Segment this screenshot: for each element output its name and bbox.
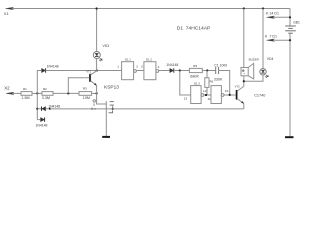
- svg-text:1: 1: [117, 65, 119, 69]
- wire down from X2 node to diode pair: [36, 93, 38, 119]
- capacitor C2 plates: [110, 102, 114, 110]
- svg-text:4: 4: [158, 65, 160, 69]
- capacitor C2 mark: [93, 103, 95, 106]
- svg-text:3.3M: 3.3M: [42, 96, 50, 100]
- node collector VT2: [243, 80, 245, 82]
- wire diode pair bottom branch: [37, 119, 40, 121]
- wire VT2 emitter to bottom rail: [243, 104, 245, 109]
- node junction base branch: [67, 92, 69, 94]
- svg-text:+: +: [242, 69, 244, 73]
- logic gate D1.4: [211, 86, 224, 104]
- node diode pair right: [49, 108, 51, 110]
- wire diode pair top branch: [37, 108, 41, 110]
- battery GB1: [285, 26, 296, 33]
- node pin 10: [229, 94, 231, 96]
- wire buzzer branch: [243, 9, 245, 68]
- svg-text:BUZER: BUZER: [249, 57, 260, 61]
- wire VT2 collector up: [243, 76, 245, 87]
- net flag K 7 D1: [267, 39, 292, 42]
- svg-text:1N4148: 1N4148: [166, 63, 178, 67]
- svg-text:1N4148: 1N4148: [47, 65, 59, 69]
- wire R3 to emitter node: [92, 92, 97, 94]
- diode VD1 1N4148: [42, 107, 46, 111]
- node junction X2/R1/R2: [36, 92, 38, 94]
- wire X2 to R1: [13, 92, 22, 94]
- node oscillator A: [179, 69, 181, 71]
- node buzzer rail: [243, 7, 245, 9]
- capacitor small bracket: [109, 111, 113, 113]
- svg-text:D1 74HC14AP: D1 74HC14AP: [177, 25, 210, 31]
- resistor R6 330K vertical: [205, 71, 209, 96]
- ground stem: [105, 101, 107, 136]
- wire up from X2 node to diode row: [37, 71, 41, 94]
- wire C1 to pin10 node: [219, 71, 230, 95]
- node oscillator B: [206, 69, 208, 71]
- logic gate D1.1: [122, 62, 137, 80]
- svg-text:13: 13: [184, 97, 188, 101]
- net flag K 14 D1: [267, 16, 292, 19]
- wire R2 to R3: [53, 92, 79, 94]
- wire collector node to pin 1: [97, 70, 121, 72]
- svg-text:10: 10: [225, 89, 229, 93]
- wire gate2 to diode: [159, 70, 170, 72]
- wire VD4 branch: [262, 9, 264, 69]
- wire battery to bottom: [289, 33, 291, 136]
- svg-text:X1: X1: [4, 11, 10, 16]
- svg-text:1.5M: 1.5M: [21, 96, 29, 100]
- wire R5 to C1: [202, 70, 215, 72]
- svg-text:C1 1000: C1 1000: [214, 64, 227, 68]
- LED VD3: [93, 52, 102, 62]
- wire right vertical (battery branch): [289, 9, 291, 26]
- wire gate3 to gate4: [204, 94, 211, 96]
- svg-text:K 7 D1: K 7 D1: [265, 35, 277, 39]
- logic gate D1.2: [144, 62, 159, 80]
- wire VD4 to collector node: [244, 75, 263, 81]
- wire R1 to R2: [32, 92, 42, 94]
- wire gate1 to gate2: [136, 70, 144, 72]
- resistor R2 3.3M: [42, 92, 53, 96]
- svg-text:KSP13: KSP13: [104, 84, 119, 90]
- node diode pair left: [36, 108, 38, 110]
- svg-text:R3: R3: [83, 87, 87, 91]
- node emitter junction: [96, 92, 98, 94]
- wire bottom rail: [50, 108, 244, 110]
- svg-text:D1.2: D1.2: [146, 58, 152, 62]
- node pin 12: [205, 94, 207, 96]
- wire diode to collector node: [46, 70, 98, 72]
- svg-text:VD3: VD3: [103, 44, 110, 48]
- svg-text:R2: R2: [43, 87, 47, 91]
- node collector junction: [96, 69, 98, 71]
- transistor VT2 C1740: [237, 86, 244, 103]
- svg-text:2: 2: [136, 65, 138, 69]
- svg-text:12: 12: [203, 89, 207, 93]
- svg-text:K 14 D1: K 14 D1: [266, 12, 279, 16]
- wire VT1 base lead: [68, 78, 89, 94]
- diode 1N4148 oscillator: [170, 68, 174, 72]
- node top rail VD3: [96, 7, 98, 9]
- svg-text:VD4: VD4: [267, 57, 274, 61]
- wire VD3 branch from top rail: [96, 9, 98, 52]
- wire gate4 to VT2 base: [224, 94, 236, 96]
- svg-text:D1.1: D1.1: [125, 58, 131, 62]
- svg-text:R1: R1: [23, 87, 27, 91]
- wire node A to pin 13: [180, 71, 191, 96]
- svg-text:11: 11: [208, 97, 211, 101]
- wire diode to right node: [46, 108, 50, 110]
- node LED rail: [262, 7, 264, 9]
- svg-text:3: 3: [141, 65, 143, 69]
- ground right bar: [285, 136, 294, 138]
- LED VD4: [260, 69, 268, 78]
- wire VT1 emitter down: [96, 86, 98, 94]
- resistor R5 680K: [189, 68, 202, 72]
- svg-text:C1740: C1740: [254, 94, 265, 98]
- svg-text:10M: 10M: [83, 96, 90, 100]
- svg-text:D1.3: D1.3: [194, 82, 200, 86]
- svg-text:680K: 680K: [190, 75, 199, 79]
- capacitor C1 1000: [216, 67, 219, 74]
- svg-text:R5: R5: [193, 64, 197, 68]
- svg-text:1N4148: 1N4148: [36, 123, 48, 127]
- diode VD2 1N4148: [41, 117, 45, 121]
- resistor R3 10M: [79, 92, 92, 96]
- wire VD3 to collector node: [96, 58, 98, 70]
- svg-text:VT2: VT2: [235, 84, 241, 88]
- svg-text:X2: X2: [4, 85, 10, 90]
- connector X1 arrow: [6, 7, 14, 10]
- svg-text:VT1: VT1: [86, 70, 91, 74]
- buzzer BUZER: [241, 63, 254, 79]
- svg-text:1N4148: 1N4148: [48, 104, 60, 108]
- svg-text:GB1: GB1: [293, 21, 300, 25]
- wire diode to R5: [174, 70, 190, 72]
- wire emitter to C2: [97, 93, 107, 104]
- svg-text:330K: 330K: [214, 77, 223, 81]
- connector X2 arrow: [6, 92, 14, 95]
- logic gate D1.3: [191, 86, 204, 104]
- svg-text:H =: H =: [91, 107, 96, 111]
- transistor VT1 KSP13: [90, 71, 97, 86]
- wire top rail: [12, 8, 290, 10]
- resistor R1 1.5M: [21, 92, 32, 96]
- connector circle test point: [93, 100, 95, 102]
- ground bar: [102, 136, 110, 138]
- diode 1N4148 input: [42, 68, 46, 72]
